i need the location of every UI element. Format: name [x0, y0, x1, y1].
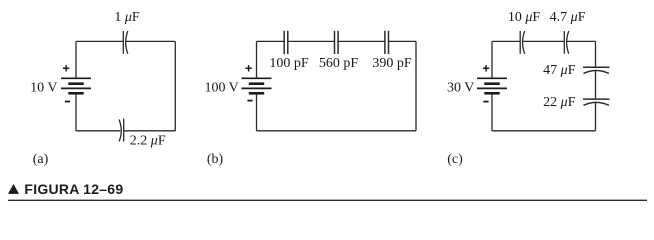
svg-text:100 V: 100 V	[204, 81, 238, 96]
svg-text:10 μF: 10 μF	[508, 10, 541, 25]
svg-text:47 μF: 47 μF	[543, 63, 576, 78]
svg-text:30 V: 30 V	[447, 81, 474, 96]
svg-text:100 pF: 100 pF	[269, 56, 309, 71]
svg-text:560 pF: 560 pF	[319, 56, 359, 71]
svg-text:(b): (b)	[207, 152, 224, 167]
svg-text:FIGURA 12–69: FIGURA 12–69	[24, 181, 123, 197]
svg-text:390 pF: 390 pF	[372, 56, 412, 71]
svg-text:(a): (a)	[33, 152, 49, 167]
svg-text:22 μF: 22 μF	[543, 95, 576, 110]
svg-text:(c): (c)	[447, 152, 463, 167]
svg-text:1 μF: 1 μF	[114, 10, 140, 25]
svg-text:2.2 μF: 2.2 μF	[130, 133, 166, 148]
svg-text:4.7 μF: 4.7 μF	[550, 10, 586, 25]
svg-text:10 V: 10 V	[30, 81, 57, 96]
